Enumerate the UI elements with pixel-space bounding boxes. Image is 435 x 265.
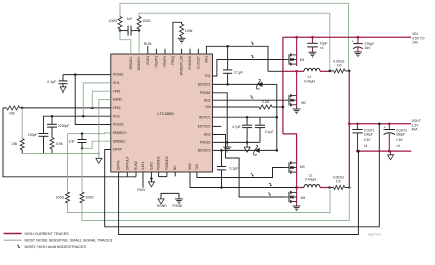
svg-text:100pF: 100pF — [28, 133, 38, 137]
svg-text:PHASMD: PHASMD — [188, 55, 192, 69]
svg-text:SW1: SW1 — [204, 56, 208, 63]
svg-text:TK/SS2: TK/SS2 — [113, 123, 124, 127]
svg-text:BOOST1: BOOST1 — [198, 83, 211, 87]
svg-text:ILIM2: ILIM2 — [149, 162, 153, 170]
svg-text:0.1µF: 0.1µF — [234, 70, 243, 74]
svg-text:SW2: SW2 — [188, 163, 192, 170]
svg-text:14V: 14V — [412, 41, 419, 45]
svg-text:SENSE1+: SENSE1+ — [137, 56, 141, 71]
svg-text:MODE/PLLIN: MODE/PLLIN — [180, 55, 184, 75]
svg-text:RUN: RUN — [144, 42, 152, 46]
svg-text:PGND: PGND — [172, 204, 182, 208]
svg-text:HIGH CURRENT TRACES: HIGH CURRENT TRACES — [25, 232, 70, 236]
svg-text:×4: ×4 — [320, 46, 324, 50]
svg-text:6.3V: 6.3V — [364, 138, 371, 142]
svg-text:330µF: 330µF — [396, 132, 405, 136]
svg-text:3855 TA01: 3855 TA01 — [368, 233, 381, 237]
svg-text:×4: ×4 — [364, 144, 368, 148]
svg-text:SENSE2-: SENSE2- — [113, 139, 127, 143]
svg-text:1nF: 1nF — [127, 17, 133, 21]
svg-text:0.1µF: 0.1µF — [230, 167, 239, 171]
svg-text:VFB1: VFB1 — [113, 89, 121, 93]
svg-text:PGND1: PGND1 — [200, 91, 211, 95]
svg-text:100k: 100k — [185, 29, 193, 33]
svg-text:FREQ: FREQ — [171, 55, 175, 64]
svg-text:20k: 20k — [9, 112, 15, 116]
svg-text:16V: 16V — [365, 46, 372, 50]
svg-text:SGND: SGND — [157, 204, 167, 208]
svg-text:5.9k: 5.9k — [56, 142, 63, 146]
svg-text:M3: M3 — [300, 165, 305, 169]
svg-text:1%: 1% — [336, 180, 341, 184]
svg-text:270µF: 270µF — [365, 42, 375, 46]
svg-text:NC: NC — [173, 165, 177, 170]
svg-text:PGOOD1: PGOOD1 — [157, 156, 161, 170]
svg-text:+: + — [351, 39, 353, 43]
svg-text:100Ω: 100Ω — [85, 196, 94, 200]
svg-text:0.1µF: 0.1µF — [47, 80, 56, 84]
svg-text:M4: M4 — [301, 196, 306, 200]
svg-text:ITEMP1: ITEMP1 — [154, 56, 158, 68]
svg-text:M1: M1 — [300, 58, 305, 62]
svg-text:VIN: VIN — [205, 105, 211, 109]
svg-text:100Ω: 100Ω — [109, 19, 118, 23]
svg-text:BG1: BG1 — [204, 98, 211, 102]
svg-text:DIFFOUT: DIFFOUT — [125, 156, 129, 170]
svg-text:100Ω: 100Ω — [142, 19, 151, 23]
svg-text:M2: M2 — [301, 101, 306, 105]
svg-text:RUN1: RUN1 — [146, 56, 150, 65]
svg-text:0.44µH: 0.44µH — [305, 178, 317, 182]
svg-text:ITH2: ITH2 — [113, 114, 120, 118]
svg-text:PGND2: PGND2 — [200, 141, 211, 145]
svg-text:100Ω: 100Ω — [56, 196, 65, 200]
svg-text:RUN2: RUN2 — [134, 161, 138, 170]
svg-text:TG2: TG2 — [195, 164, 199, 170]
svg-text:0.44µH: 0.44µH — [304, 79, 316, 83]
svg-text:0.1µF: 0.1µF — [265, 130, 274, 134]
svg-text:20k: 20k — [12, 142, 18, 146]
svg-text:TK/SS1: TK/SS1 — [113, 73, 124, 77]
svg-text:40A: 40A — [412, 128, 419, 132]
svg-text:SENSE1-: SENSE1- — [129, 56, 133, 70]
svg-text:2200pF: 2200pF — [58, 124, 70, 128]
svg-text:INTVCC: INTVCC — [199, 115, 212, 119]
svg-text:SENSE2+: SENSE2+ — [113, 131, 128, 135]
svg-text:100µF: 100µF — [364, 132, 373, 136]
svg-text:DIFFP: DIFFP — [113, 148, 122, 152]
svg-text:PGOOD2: PGOOD2 — [165, 156, 169, 170]
svg-text:BG2: BG2 — [204, 133, 211, 137]
svg-text:+: + — [384, 125, 386, 129]
svg-text:CLKOUT: CLKOUT — [196, 56, 200, 69]
svg-text:1%: 1% — [336, 64, 341, 68]
svg-text:TG1: TG1 — [204, 74, 210, 78]
svg-text:2.2Ω: 2.2Ω — [262, 100, 270, 104]
svg-text:LTC3855: LTC3855 — [157, 111, 174, 116]
svg-text:VFB2: VFB2 — [113, 106, 121, 110]
svg-text:BOOST2: BOOST2 — [198, 149, 211, 153]
svg-text:DIFFN: DIFFN — [117, 160, 121, 170]
svg-text:2.5V: 2.5V — [396, 138, 403, 142]
svg-text:ILIM1: ILIM1 — [141, 162, 145, 170]
svg-text:EXTVCC: EXTVCC — [198, 125, 212, 129]
svg-text:ITEMP2: ITEMP2 — [163, 56, 167, 68]
svg-text:10µF: 10µF — [320, 42, 328, 46]
svg-text:SGND: SGND — [113, 98, 123, 102]
svg-text:RUN: RUN — [137, 188, 145, 192]
svg-text:1nF: 1nF — [69, 139, 75, 143]
svg-text:ITH1: ITH1 — [113, 81, 120, 85]
svg-text:×4: ×4 — [396, 144, 400, 148]
svg-text:MOST NOISE SENSITIVE, SMALL SI: MOST NOISE SENSITIVE, SMALL SIGNAL TRACE… — [25, 239, 113, 243]
svg-text:NOISY, HIGH dv/dt NODES/TRACES: NOISY, HIGH dv/dt NODES/TRACES — [25, 245, 87, 249]
svg-text:4.7µF: 4.7µF — [232, 125, 241, 129]
